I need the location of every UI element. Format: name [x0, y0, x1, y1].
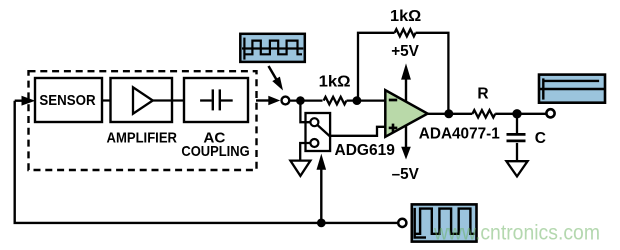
svg-text:ADA4077-1: ADA4077-1: [419, 125, 500, 142]
resistor R2 1k feedback: [390, 8, 421, 37]
AMPLIFIER box: [107, 78, 178, 147]
-5V supply arrow: [392, 125, 420, 183]
wire: input arrow into sensor: [15, 96, 36, 106]
scope icon: input square wave (top middle): [240, 34, 304, 62]
AC COUPLING box: [181, 78, 249, 160]
wire: amplifier to ac coupling: [153, 99, 200, 101]
wire: switch output to op-amp non-inverting input: [330, 127, 386, 136]
svg-text:1kΩ: 1kΩ: [319, 73, 351, 90]
svg-text:–5V: –5V: [392, 166, 420, 183]
capacitor C: [507, 114, 547, 147]
node: bottom junction: [317, 219, 326, 228]
arrow: scope icon to input terminal: [269, 66, 284, 91]
svg-text:AMPLIFIER: AMPLIFIER: [107, 130, 178, 147]
svg-text:+5V: +5V: [391, 43, 419, 60]
wire: feedback loop up/over: [358, 33, 448, 114]
ground at capacitor: [506, 143, 527, 177]
capacitor symbol inside: [200, 99, 212, 101]
svg-text:SENSOR: SENSOR: [39, 93, 96, 109]
node: junction at switch tap: [296, 96, 305, 105]
wire: arrow from block output to input terminal: [256, 96, 280, 106]
wire: op-amp output: [428, 113, 472, 115]
wire: sensor to amplifier: [102, 99, 133, 101]
resistor R output: [472, 86, 495, 118]
scope icon: control square wave (bottom): [412, 204, 477, 241]
svg-text:C: C: [535, 130, 546, 147]
wire: switch control arrow: [317, 154, 327, 223]
wire: resistor to op-amp inverting input: [347, 99, 386, 101]
wire: R to output terminal: [495, 113, 546, 115]
SENSOR box: [35, 78, 102, 122]
switch ADG619: [300, 101, 395, 159]
wire: feedback bottom horizontal: [14, 222, 398, 224]
scope icon: output filtered (right): [539, 75, 605, 103]
+5V supply arrow: [391, 43, 419, 101]
wire: terminal to summing node: [290, 99, 322, 101]
ground at switch: [290, 143, 310, 176]
op-amp U1 ADA4077-1: [385, 90, 500, 142]
node: inverting input junction: [353, 96, 362, 105]
resistor R1 1k input: [319, 73, 351, 104]
svg-text:www.cntronics.com: www.cntronics.com: [433, 222, 600, 245]
dashed sensor-block outline: [29, 71, 257, 170]
node: input terminal (open circle): [282, 97, 290, 105]
svg-text:ADG619: ADG619: [335, 142, 396, 159]
svg-text:R: R: [477, 86, 488, 103]
node: output junction: [444, 109, 453, 118]
wire: feedback left vertical: [13, 101, 15, 223]
node: filter junction: [512, 109, 521, 118]
node: output terminal (open circle): [546, 109, 554, 117]
svg-text:COUPLING: COUPLING: [181, 143, 249, 160]
node: control terminal (open circle, bottom): [398, 219, 406, 227]
svg-text:1kΩ: 1kΩ: [390, 8, 421, 25]
